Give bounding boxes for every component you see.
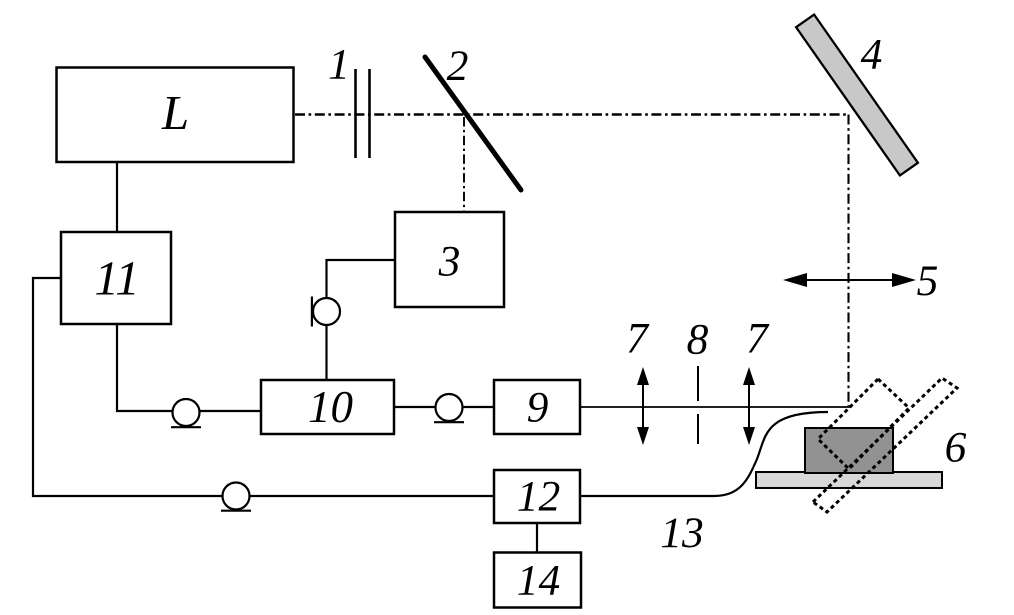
svg-text:10: 10 (308, 382, 353, 432)
svg-text:11: 11 (94, 251, 139, 306)
svg-text:13: 13 (660, 509, 704, 557)
svg-text:3: 3 (438, 238, 461, 286)
svg-text:7: 7 (626, 315, 650, 363)
svg-text:12: 12 (517, 473, 561, 521)
svg-text:8: 8 (687, 316, 709, 364)
svg-text:14: 14 (517, 557, 561, 605)
svg-text:5: 5 (917, 257, 939, 305)
svg-text:1: 1 (328, 41, 350, 89)
svg-text:L: L (161, 85, 189, 140)
svg-text:7: 7 (746, 315, 770, 363)
svg-text:9: 9 (527, 384, 549, 432)
svg-text:6: 6 (945, 424, 967, 472)
svg-text:4: 4 (861, 31, 883, 79)
svg-text:2: 2 (447, 42, 469, 90)
